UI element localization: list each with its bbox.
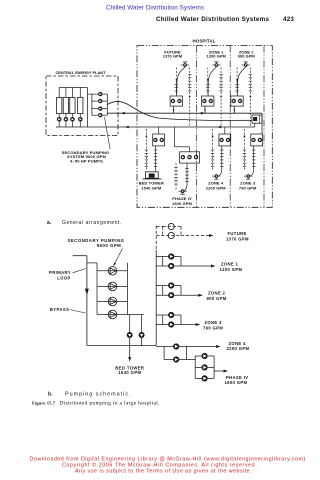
svg-text:LOOP: LOOP — [57, 275, 70, 280]
svg-text:Pumping schematic.: Pumping schematic. — [65, 392, 132, 398]
svg-text:2200 GPM: 2200 GPM — [206, 185, 226, 190]
svg-text:BYPASS: BYPASS — [50, 307, 69, 312]
svg-text:900 GPM: 900 GPM — [238, 53, 256, 58]
svg-text:790 GPM: 790 GPM — [203, 325, 223, 330]
svg-text:1200 GPM: 1200 GPM — [206, 53, 226, 58]
svg-text:790 GPM: 790 GPM — [239, 185, 257, 190]
svg-text:Figure 15.7: Figure 15.7 — [32, 400, 56, 405]
svg-text:General arrangement.: General arrangement. — [62, 220, 122, 226]
svg-text:b.: b. — [48, 392, 53, 398]
svg-text:9600 GPM: 9600 GPM — [97, 243, 122, 248]
svg-text:Chilled Water Distribution Sys: Chilled Water Distribution Systems — [106, 4, 204, 11]
svg-text:Any use is subject to the Term: Any use is subject to the Terms of Use a… — [75, 469, 252, 475]
svg-text:Copyright © 2006 The McGraw-Hi: Copyright © 2006 The McGraw-Hill Compani… — [62, 461, 257, 468]
svg-text:2200 GPM: 2200 GPM — [227, 346, 250, 351]
svg-text:CENTRAL ENERGY PLANT: CENTRAL ENERGY PLANT — [55, 70, 106, 75]
svg-text:ZONE 3: ZONE 3 — [205, 320, 223, 325]
svg-text:HOSPITAL: HOSPITAL — [192, 39, 215, 44]
svg-text:Chilled Water Distribution Sys: Chilled Water Distribution Systems — [156, 16, 269, 23]
svg-text:PHASE IV: PHASE IV — [226, 375, 248, 380]
svg-text:900 GPM: 900 GPM — [207, 296, 227, 301]
svg-text:1200 GPM: 1200 GPM — [220, 267, 243, 272]
svg-text:1370 GPM: 1370 GPM — [226, 236, 249, 241]
svg-text:4–50 HP PUMPS: 4–50 HP PUMPS — [70, 158, 103, 163]
svg-text:FUTURE: FUTURE — [228, 231, 247, 236]
svg-text:a.: a. — [47, 220, 52, 226]
svg-text:423: 423 — [283, 16, 294, 23]
svg-text:1600 GPM: 1600 GPM — [225, 380, 248, 385]
svg-text:ZONE 2: ZONE 2 — [208, 291, 226, 296]
svg-text:1370 GPM: 1370 GPM — [163, 53, 183, 58]
svg-text:1600 GPM: 1600 GPM — [172, 201, 192, 206]
svg-text:Distributed pumping in a large: Distributed pumping in a large hospital. — [60, 400, 161, 406]
svg-text:1540 GPM: 1540 GPM — [141, 185, 161, 190]
svg-text:1540 GPM: 1540 GPM — [118, 370, 141, 375]
svg-text:ZONE 1: ZONE 1 — [221, 261, 239, 266]
